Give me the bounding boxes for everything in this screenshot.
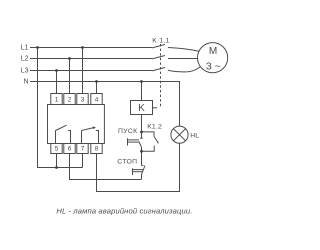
- svg-text:2: 2: [68, 96, 72, 103]
- svg-text:3: 3: [81, 96, 85, 103]
- svg-text:N: N: [23, 79, 28, 86]
- svg-text:HL: HL: [190, 132, 199, 139]
- svg-text:3 ~: 3 ~: [206, 60, 221, 72]
- svg-text:L2: L2: [21, 56, 29, 63]
- svg-text:5: 5: [55, 146, 59, 153]
- svg-text:M: M: [209, 46, 217, 57]
- svg-text:K 1.1: K 1.1: [152, 37, 169, 44]
- svg-text:6: 6: [68, 146, 72, 153]
- svg-text:L1: L1: [21, 45, 29, 52]
- svg-text:L3: L3: [21, 68, 29, 75]
- svg-text:4: 4: [95, 96, 99, 103]
- svg-text:1: 1: [55, 96, 59, 103]
- svg-text:8: 8: [95, 146, 99, 153]
- svg-text:7: 7: [81, 146, 85, 153]
- svg-text:СТОП: СТОП: [117, 159, 137, 166]
- svg-text:K: K: [138, 103, 145, 114]
- svg-text:K1.2: K1.2: [147, 123, 162, 130]
- svg-text:HL - лампа аварийной сигнализа: HL - лампа аварийной сигнализации.: [56, 206, 192, 215]
- svg-text:ПУСК: ПУСК: [118, 128, 137, 135]
